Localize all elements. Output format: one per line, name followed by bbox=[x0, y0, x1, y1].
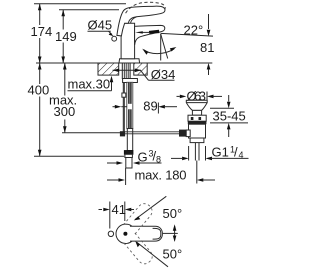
svg-text:max. 180: max. 180 bbox=[135, 167, 187, 182]
countertop surface line bbox=[36, 62, 212, 64]
svg-text:50°: 50° bbox=[163, 247, 183, 262]
Ø45 label bbox=[88, 18, 114, 37]
22 deg label bbox=[161, 23, 214, 38]
waste collar bbox=[192, 110, 201, 115]
bottom view center dot bbox=[123, 232, 127, 236]
spout bbox=[135, 25, 165, 45]
faucet base plate bbox=[119, 59, 140, 63]
rod lower clamp square bbox=[120, 131, 125, 136]
bottom view dashed lever rotated up bbox=[123, 201, 155, 235]
dim G3/8 bbox=[107, 148, 162, 165]
svg-text:/: / bbox=[234, 145, 238, 160]
dim max300 bbox=[49, 63, 120, 133]
countertop left block bbox=[98, 63, 119, 75]
svg-text:Ø34: Ø34 bbox=[151, 67, 176, 82]
waste set funnel bbox=[186, 100, 207, 110]
waste body bbox=[189, 124, 206, 138]
dim 149 bbox=[55, 10, 77, 63]
threaded tube below nut bbox=[127, 82, 133, 128]
svg-text:400: 400 bbox=[28, 83, 50, 98]
pop-up rod vertical bbox=[122, 83, 124, 134]
dim 41 bbox=[99, 202, 135, 229]
dim 174 bbox=[31, 4, 53, 63]
ball joint knob bbox=[179, 130, 186, 137]
svg-text:8: 8 bbox=[156, 154, 161, 164]
50 deg upper leader line bbox=[134, 196, 182, 221]
dim 174 extension top bbox=[34, 3, 126, 5]
flexible hose tube bbox=[127, 129, 132, 151]
22 deg swing arc with arrows bbox=[142, 47, 176, 55]
drain pipe center line bbox=[196, 161, 198, 184]
lever handle solid bbox=[117, 6, 165, 36]
G3/8 threaded end bbox=[126, 158, 132, 169]
svg-text:G1: G1 bbox=[212, 145, 229, 160]
dim 81 bbox=[200, 14, 214, 75]
bottom view lever inner tip line bbox=[153, 228, 161, 239]
dim Ø34 bbox=[113, 67, 176, 82]
svg-text:89: 89 bbox=[143, 98, 157, 113]
dim 400 bbox=[28, 63, 125, 156]
faucet threaded shank through hole bbox=[122, 63, 130, 79]
svg-text:Ø45: Ø45 bbox=[88, 18, 113, 33]
svg-text:G: G bbox=[138, 149, 148, 164]
waste body lower step bbox=[190, 138, 204, 143]
svg-text:174: 174 bbox=[31, 24, 53, 39]
svg-text:4: 4 bbox=[239, 150, 244, 160]
horizontal pop-up rod bbox=[125, 133, 180, 135]
bottom view small circle bbox=[108, 231, 113, 236]
mounting nut bbox=[123, 79, 138, 83]
countertop right block bbox=[134, 63, 147, 75]
waste seal dark band bbox=[188, 121, 207, 124]
dim 35-45 bbox=[210, 95, 248, 137]
pop-up rod clamp bbox=[122, 93, 126, 97]
bottom view horizontal axis line bbox=[163, 232, 178, 234]
waste drain pipe bbox=[194, 143, 196, 161]
faucet body bbox=[121, 23, 135, 58]
ball joint housing bbox=[186, 130, 190, 137]
svg-text:Ø63: Ø63 bbox=[187, 88, 207, 103]
lever front circle bbox=[112, 36, 117, 41]
22 deg leg vertical bbox=[160, 34, 162, 61]
bottom view lever solid bbox=[130, 226, 162, 241]
dim max180 bbox=[107, 167, 215, 185]
svg-text:149: 149 bbox=[55, 29, 77, 44]
bottom view dashed lever rotated down bbox=[124, 233, 156, 267]
svg-text:50°: 50° bbox=[163, 206, 183, 221]
aerator bbox=[149, 30, 159, 34]
dim Ø63 bbox=[177, 88, 223, 103]
flange screw slots bbox=[191, 117, 194, 120]
svg-text:max.30: max.30 bbox=[68, 77, 111, 92]
dim 89 bbox=[113, 98, 178, 113]
svg-text:41: 41 bbox=[112, 202, 126, 217]
dim G1 1/4 bbox=[171, 145, 249, 161]
bottom view double arrow between 50deg legs bbox=[173, 224, 177, 242]
G3/8 connector nut bbox=[124, 151, 133, 155]
50 deg lower leader line bbox=[135, 241, 182, 267]
22 deg leg slanted bbox=[161, 34, 168, 59]
svg-text:300: 300 bbox=[54, 104, 76, 119]
lever raised dashed outline bbox=[126, 2, 166, 13]
svg-text:81: 81 bbox=[200, 40, 214, 55]
svg-text:35-45: 35-45 bbox=[213, 109, 246, 124]
flow arrow into spout bbox=[135, 31, 149, 33]
bottom view body circle bbox=[116, 224, 135, 243]
dim 149 extension top bbox=[59, 9, 119, 11]
dim max.30 bbox=[68, 76, 114, 92]
waste upper flange bbox=[188, 115, 206, 121]
lever loop inner line bbox=[131, 17, 137, 24]
